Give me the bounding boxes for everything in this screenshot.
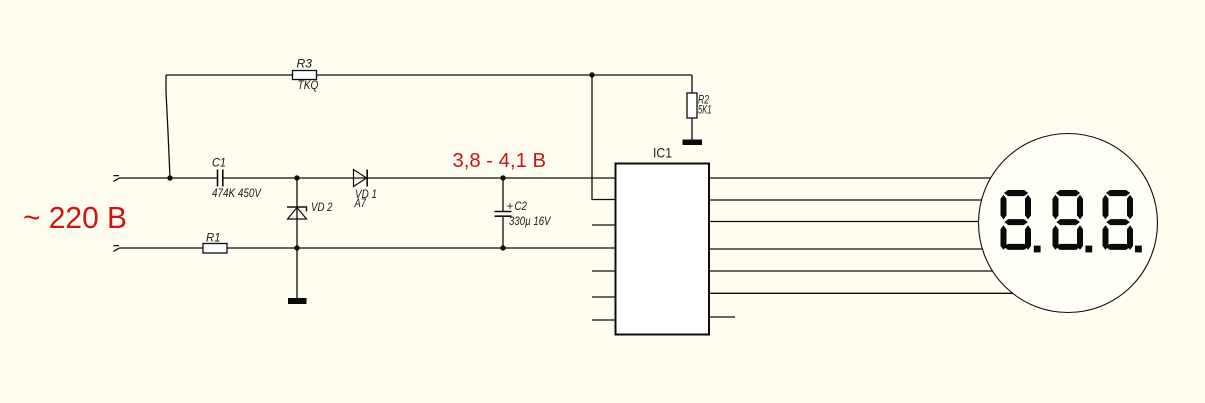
decimal point 1 — [1034, 246, 1041, 253]
wire: top junction down into IC pin 2 — [592, 75, 616, 200]
terminal: AC input top chevron — [114, 176, 120, 182]
svg-text:474K 450V: 474K 450V — [212, 188, 262, 200]
resistor R2 — [687, 93, 697, 118]
wire: AC bottom rail to IC pin — [119, 247, 616, 249]
svg-text:IC1: IC1 — [653, 145, 672, 161]
terminal: AC input bottom chevron — [114, 246, 120, 252]
svg-text:C1: C1 — [212, 158, 226, 170]
wire: C1 to IC pin (through VD1, C2 node) — [223, 177, 616, 179]
wire: top rail y=75 — [166, 74, 692, 76]
op IC1 box — [616, 164, 710, 335]
capacitor C2 (electrolytic) — [495, 178, 512, 248]
resistor R3 — [293, 71, 317, 80]
svg-text:VD 2: VD 2 — [311, 202, 333, 214]
wire: R2 top lead — [691, 75, 693, 93]
IC right pins to display — [709, 178, 1020, 317]
7-segment digit 3 — [1103, 190, 1134, 250]
svg-text:~ 220 В: ~ 220 В — [23, 200, 127, 235]
ground for VD2 — [288, 298, 307, 304]
wire: AC top terminal to C1 — [119, 177, 217, 179]
display circle — [979, 134, 1158, 313]
IC left stub pins — [592, 225, 616, 320]
diode VD1 — [354, 170, 368, 187]
svg-text:+: + — [507, 201, 514, 213]
node: C2 bottom junction — [500, 245, 505, 250]
ground for R2 — [683, 140, 703, 146]
decimal point 2 — [1085, 246, 1092, 253]
7-segment digit 1 — [1001, 190, 1032, 250]
svg-text:R1: R1 — [206, 233, 221, 245]
svg-text:TKQ: TKQ — [298, 80, 319, 92]
node: VD2 top junction — [294, 175, 299, 180]
svg-text:3,8 - 4,1 В: 3,8 - 4,1 В — [453, 150, 547, 172]
svg-text:5K1: 5K1 — [698, 105, 712, 117]
decimal point 3 — [1135, 246, 1142, 253]
wire: left vertical from top rail down to AC line — [166, 75, 170, 178]
node: VD2 bottom junction — [294, 245, 299, 250]
svg-text:R3: R3 — [297, 59, 313, 71]
wire: VD2 branch vertical (top rail to ground) — [296, 178, 298, 298]
resistor R1 — [203, 244, 227, 254]
capacitor C1 — [218, 170, 223, 187]
zener diode VD2 — [287, 207, 307, 219]
svg-text:A7: A7 — [354, 198, 367, 210]
svg-text:330µ 16V: 330µ 16V — [509, 216, 552, 228]
7-segment digit 2 — [1053, 190, 1084, 250]
node: junction AC top / left vertical — [167, 175, 172, 180]
node: C2 top junction — [500, 175, 505, 180]
wire: R2 bottom lead to ground — [691, 118, 693, 140]
svg-text:C2: C2 — [515, 201, 528, 213]
node: junction top rail feed to IC — [589, 72, 594, 77]
